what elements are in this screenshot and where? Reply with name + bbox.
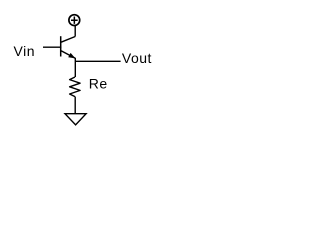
svg-text:Re: Re [89,76,108,92]
transistor Q1 (NPN) [61,36,76,58]
svg-text:Vin: Vin [14,43,35,59]
resistor Re [70,77,81,97]
wire emitter to Vout [75,60,120,62]
wire resistor to ground [74,97,76,113]
svg-text:Vout: Vout [122,50,152,66]
wire base input [43,46,61,48]
power supply V+ terminal [69,15,80,26]
ground [65,114,86,125]
wire emitter down to resistor [74,58,76,77]
wire collector to supply [74,26,76,37]
